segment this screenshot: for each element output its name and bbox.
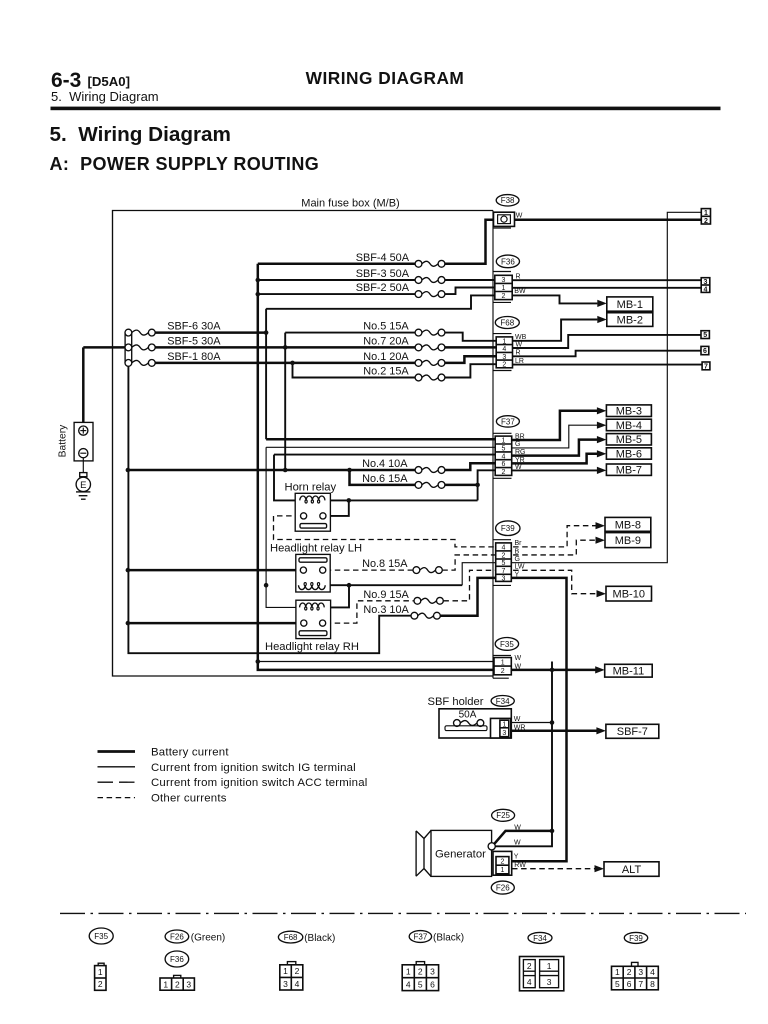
svg-text:No.3 10A: No.3 10A — [363, 604, 409, 616]
svg-text:W: W — [514, 716, 521, 723]
svg-text:MB-5: MB-5 — [616, 434, 642, 446]
svg-text:LR: LR — [515, 358, 524, 365]
svg-text:3: 3 — [502, 354, 506, 361]
svg-text:Y: Y — [515, 571, 520, 578]
svg-text:MB-6: MB-6 — [616, 448, 642, 460]
svg-text:G: G — [515, 441, 520, 448]
svg-text:7: 7 — [704, 364, 708, 371]
svg-text:F39: F39 — [629, 934, 643, 943]
svg-text:SBF-3 50A: SBF-3 50A — [356, 268, 410, 280]
svg-text:(Green): (Green) — [191, 932, 225, 943]
svg-text:(Black): (Black) — [304, 933, 335, 944]
svg-text:MB-11: MB-11 — [613, 666, 645, 678]
svg-text:3: 3 — [186, 979, 191, 989]
svg-text:1: 1 — [502, 338, 506, 345]
svg-text:[D5A0]: [D5A0] — [88, 74, 131, 89]
svg-text:MB-8: MB-8 — [615, 519, 641, 531]
svg-text:SBF-5 30A: SBF-5 30A — [167, 336, 221, 348]
svg-text:SBF-4 50A: SBF-4 50A — [356, 252, 410, 264]
svg-text:6: 6 — [501, 461, 505, 468]
svg-text:2: 2 — [527, 961, 532, 971]
svg-text:6: 6 — [703, 348, 707, 355]
svg-text:Headlight relay LH: Headlight relay LH — [270, 543, 362, 555]
svg-text:3: 3 — [502, 277, 506, 284]
svg-text:F25: F25 — [496, 811, 510, 820]
svg-text:No.6 15A: No.6 15A — [362, 473, 408, 485]
svg-text:BW: BW — [514, 288, 526, 295]
svg-text:W: W — [516, 341, 523, 348]
svg-text:SBF-1 80A: SBF-1 80A — [167, 351, 221, 363]
svg-text:2: 2 — [502, 361, 506, 368]
svg-text:W: W — [514, 840, 521, 847]
svg-text:MB-9: MB-9 — [615, 535, 641, 547]
svg-text:4: 4 — [406, 979, 411, 989]
svg-text:2: 2 — [501, 668, 505, 675]
svg-text:1: 1 — [704, 210, 708, 217]
svg-text:Other currents: Other currents — [151, 793, 227, 805]
svg-text:5: 5 — [501, 445, 505, 452]
svg-text:No.1 20A: No.1 20A — [363, 351, 409, 363]
svg-text:(Black): (Black) — [433, 933, 464, 944]
svg-text:7: 7 — [638, 979, 643, 989]
svg-text:F34: F34 — [533, 934, 547, 943]
svg-text:2: 2 — [704, 218, 708, 225]
svg-text:W: W — [515, 655, 522, 662]
svg-text:MB-7: MB-7 — [616, 465, 642, 477]
svg-text:Battery current: Battery current — [151, 747, 229, 759]
svg-text:WR: WR — [514, 724, 526, 731]
svg-text:MB-1: MB-1 — [617, 299, 643, 311]
svg-text:W: W — [516, 213, 523, 220]
svg-text:3: 3 — [502, 730, 506, 737]
svg-text:F68: F68 — [284, 933, 298, 942]
svg-text:MB-4: MB-4 — [616, 420, 642, 432]
svg-text:3: 3 — [547, 977, 552, 987]
svg-text:1: 1 — [615, 967, 620, 977]
svg-text:E: E — [80, 480, 86, 491]
svg-text:F36: F36 — [170, 955, 184, 964]
svg-text:F38: F38 — [501, 196, 515, 205]
svg-text:2: 2 — [627, 967, 632, 977]
svg-text:5: 5 — [615, 979, 620, 989]
svg-text:1: 1 — [406, 967, 411, 977]
svg-text:2: 2 — [418, 967, 423, 977]
svg-text:5. Wiring Diagram: 5. Wiring Diagram — [50, 123, 231, 146]
svg-text:SBF holder: SBF holder — [428, 696, 484, 708]
svg-text:F68: F68 — [500, 318, 514, 327]
svg-text:No.5 15A: No.5 15A — [363, 320, 409, 332]
svg-text:6: 6 — [430, 979, 435, 989]
svg-text:Headlight relay RH: Headlight relay RH — [265, 641, 359, 653]
svg-text:Current from ignition switch A: Current from ignition switch ACC termina… — [151, 777, 367, 789]
svg-text:Br: Br — [515, 540, 523, 547]
svg-text:Horn relay: Horn relay — [285, 481, 337, 493]
svg-text:No.8 15A: No.8 15A — [362, 558, 408, 570]
svg-text:1: 1 — [502, 722, 506, 729]
svg-text:5. Wiring Diagram: 5. Wiring Diagram — [51, 89, 159, 104]
svg-text:2: 2 — [502, 552, 506, 559]
svg-text:F37: F37 — [414, 932, 428, 941]
svg-text:2: 2 — [500, 858, 504, 865]
svg-text:Main fuse box (M/B): Main fuse box (M/B) — [301, 197, 399, 209]
svg-text:F35: F35 — [500, 640, 514, 649]
svg-text:WB: WB — [515, 334, 527, 341]
svg-text:5: 5 — [418, 979, 423, 989]
svg-text:1: 1 — [547, 961, 552, 971]
svg-text:F37: F37 — [501, 417, 515, 426]
svg-text:1: 1 — [501, 659, 505, 666]
svg-text:1: 1 — [283, 966, 288, 976]
svg-text:4: 4 — [501, 453, 505, 460]
svg-text:No.7 20A: No.7 20A — [363, 336, 409, 348]
svg-text:4: 4 — [650, 967, 655, 977]
svg-text:RG: RG — [515, 449, 526, 456]
svg-text:2: 2 — [295, 966, 300, 976]
svg-text:3: 3 — [430, 967, 435, 977]
svg-text:2: 2 — [98, 979, 103, 989]
svg-text:5: 5 — [502, 560, 506, 567]
svg-text:YR: YR — [515, 457, 525, 464]
svg-text:4: 4 — [502, 544, 506, 551]
svg-text:4: 4 — [502, 346, 506, 353]
svg-text:R: R — [516, 350, 521, 357]
svg-text:R: R — [516, 273, 521, 280]
svg-text:1: 1 — [500, 867, 504, 874]
svg-text:F34: F34 — [496, 697, 510, 706]
svg-text:2: 2 — [502, 293, 506, 300]
svg-text:Battery: Battery — [58, 424, 69, 457]
svg-text:W: W — [514, 824, 521, 831]
svg-text:3: 3 — [638, 967, 643, 977]
svg-text:1: 1 — [502, 285, 506, 292]
svg-text:W: W — [515, 663, 522, 670]
svg-text:5: 5 — [703, 332, 707, 339]
svg-text:RW: RW — [514, 862, 526, 869]
svg-text:MB-3: MB-3 — [616, 406, 642, 418]
svg-text:3: 3 — [502, 575, 506, 582]
svg-text:LW: LW — [515, 564, 525, 571]
svg-text:Generator: Generator — [435, 849, 486, 861]
svg-text:6: 6 — [627, 979, 632, 989]
svg-text:F26: F26 — [170, 932, 184, 941]
svg-text:SBF-6 30A: SBF-6 30A — [167, 321, 221, 333]
svg-text:Y: Y — [514, 854, 519, 861]
svg-text:A: POWER SUPPLY ROUTING: A: POWER SUPPLY ROUTING — [50, 154, 320, 174]
svg-text:1: 1 — [501, 438, 505, 445]
svg-text:ALT: ALT — [622, 864, 642, 876]
svg-text:MB-10: MB-10 — [613, 589, 645, 601]
svg-text:4: 4 — [295, 979, 300, 989]
svg-text:4: 4 — [704, 286, 708, 293]
svg-text:7: 7 — [502, 568, 506, 575]
svg-text:No.9 15A: No.9 15A — [363, 589, 409, 601]
svg-text:2: 2 — [175, 979, 180, 989]
svg-text:MB-2: MB-2 — [617, 314, 643, 326]
svg-text:G: G — [515, 556, 520, 563]
svg-text:4: 4 — [527, 977, 532, 987]
svg-text:8: 8 — [650, 979, 655, 989]
svg-text:B: B — [515, 548, 520, 555]
svg-text:F35: F35 — [94, 932, 108, 941]
svg-text:WIRING DIAGRAM: WIRING DIAGRAM — [306, 68, 465, 88]
svg-text:No.2 15A: No.2 15A — [363, 366, 409, 378]
svg-text:1: 1 — [98, 967, 103, 977]
svg-text:No.4 10A: No.4 10A — [362, 458, 408, 470]
svg-text:F36: F36 — [501, 257, 515, 266]
svg-text:BR: BR — [515, 433, 525, 440]
svg-text:F39: F39 — [501, 524, 515, 533]
svg-text:50A: 50A — [459, 710, 477, 721]
svg-text:2: 2 — [501, 469, 505, 476]
svg-text:SBF-7: SBF-7 — [617, 726, 648, 738]
svg-text:SBF-2 50A: SBF-2 50A — [356, 282, 410, 294]
svg-text:Current from ignition switch I: Current from ignition switch IG terminal — [151, 762, 356, 774]
svg-text:3: 3 — [704, 279, 708, 286]
svg-text:F26: F26 — [496, 883, 510, 892]
svg-text:W: W — [515, 464, 522, 471]
svg-text:1: 1 — [163, 979, 168, 989]
svg-text:3: 3 — [283, 979, 288, 989]
